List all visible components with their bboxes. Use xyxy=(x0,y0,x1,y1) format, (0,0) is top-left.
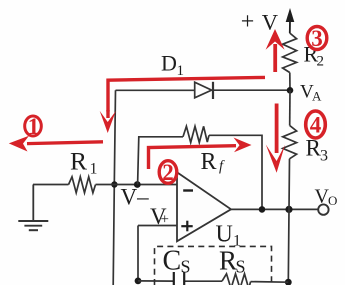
svg-text:C: C xyxy=(163,245,182,276)
supply +V arrow xyxy=(286,8,295,33)
label U1 xyxy=(216,222,242,250)
wire: bottom rail xyxy=(138,281,288,282)
svg-text:3: 3 xyxy=(320,148,328,165)
svg-text:D: D xyxy=(161,51,177,76)
label Rf xyxy=(201,149,226,175)
red annotation arrow 4 (down through R3) xyxy=(266,104,285,173)
resistor Rf xyxy=(183,126,209,142)
op-amp U1 xyxy=(177,172,231,241)
svg-text:U: U xyxy=(216,222,233,248)
svg-text:R: R xyxy=(219,245,237,275)
label Rs xyxy=(219,245,246,276)
svg-text:2: 2 xyxy=(162,160,174,185)
label VA xyxy=(300,82,322,104)
dashed snubber box xyxy=(155,246,272,285)
ground xyxy=(18,185,48,231)
red circled 4 xyxy=(306,111,326,138)
red annotation arrow 1 (left, current out of V-) xyxy=(9,136,103,152)
resistor Rs xyxy=(222,274,251,285)
svg-text:1: 1 xyxy=(28,114,40,139)
node: R3 junction dot on output row xyxy=(285,206,292,213)
diode D1 xyxy=(195,82,213,99)
red annotation arrow 2 (through Rf to output) xyxy=(149,138,252,170)
resistor R3 xyxy=(283,126,297,159)
node: Rf branch junction dot on V- row xyxy=(134,181,141,188)
node V- junction dot xyxy=(111,181,117,187)
wire: V- row from ground branch to op-amp inverting input xyxy=(33,184,177,186)
svg-text:1: 1 xyxy=(177,63,185,79)
label Cs xyxy=(163,245,191,276)
svg-text:O: O xyxy=(328,193,337,208)
label V+ xyxy=(150,204,169,229)
svg-text:4: 4 xyxy=(310,113,322,138)
wire: output row from op-amp to terminal xyxy=(231,208,318,210)
wire: R3 down to output row and on down to bottom rail xyxy=(288,159,289,282)
svg-text:R: R xyxy=(70,146,87,175)
node: bottom-left junction dot xyxy=(135,278,142,285)
label R3 xyxy=(306,135,329,164)
node: feedback junction dot on output row xyxy=(259,206,266,213)
svg-text:+: + xyxy=(161,212,169,228)
label R1 xyxy=(70,146,98,177)
label Vo xyxy=(315,185,338,208)
red annotation arrow: D1 current path (top line turning down) xyxy=(100,77,265,133)
svg-text:3: 3 xyxy=(311,26,323,51)
svg-text:1: 1 xyxy=(90,161,98,178)
red circled 1 xyxy=(25,114,42,139)
node: bottom-right junction dot xyxy=(285,279,292,285)
red annotation arrow 3 (up through R2) xyxy=(266,29,285,72)
red circled 3 xyxy=(307,26,327,51)
wire: diode row from V- branch corner to node VA xyxy=(116,89,291,91)
label V- xyxy=(121,184,150,209)
wire: feedback branch up from V- row, across to right, down to output row xyxy=(138,135,262,209)
svg-text:S: S xyxy=(236,257,246,277)
svg-text:V–: V– xyxy=(121,184,150,209)
capacitor Cs xyxy=(174,272,184,285)
svg-text:S: S xyxy=(181,257,191,277)
red circled 2 xyxy=(159,160,177,185)
resistor R2 xyxy=(283,33,297,73)
wire: VA down to R3 xyxy=(289,90,291,125)
svg-text:R: R xyxy=(201,149,217,175)
label R2 xyxy=(304,42,325,70)
svg-text:A: A xyxy=(312,89,322,104)
wire: vertical from diode anode down through node V- to bottom edge xyxy=(113,90,115,285)
wire: V+ branch down to bottom rail xyxy=(137,226,139,281)
label D1 xyxy=(161,51,184,80)
output terminal Vo xyxy=(318,204,328,214)
node VA junction dot xyxy=(287,87,294,94)
svg-text:2: 2 xyxy=(317,54,325,70)
label +V xyxy=(241,9,278,35)
svg-text:+: + xyxy=(241,9,255,35)
wire: non-inverting input from V+ corner into op-amp xyxy=(138,225,177,227)
wire: R2 to node VA xyxy=(289,73,291,91)
resistor R1 xyxy=(69,177,96,193)
